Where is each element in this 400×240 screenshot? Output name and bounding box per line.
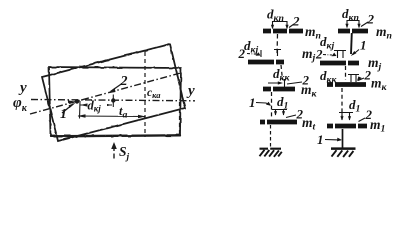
arrow d1 right A — [282, 111, 285, 115]
svg-text:mп: mп — [376, 24, 392, 42]
d_1 A ticks — [272, 109, 287, 115]
leader 2 B 1 — [359, 118, 366, 122]
mass bar m_j A — [248, 60, 284, 65]
leader to point 2 — [111, 84, 123, 92]
arrow leader2 B j — [332, 53, 337, 57]
svg-text:mj: mj — [302, 46, 316, 64]
d_kj B ticks — [334, 50, 346, 58]
leader 2 A j (dash-dot) — [247, 53, 257, 56]
svg-text:1: 1 — [360, 38, 367, 53]
t_a right arrow — [138, 115, 146, 118]
arrowhead leader 1 — [69, 103, 76, 108]
svg-text:mt: mt — [302, 115, 316, 133]
leader 1 B top — [353, 50, 359, 55]
leader 2 B top — [361, 22, 368, 27]
t_a left arrow — [78, 114, 86, 117]
svg-text:2: 2 — [367, 12, 375, 27]
column k-1 B dashed — [341, 88, 343, 122]
mass bar m_p A — [263, 29, 303, 34]
arrow d_kp right A — [285, 25, 288, 30]
svg-text:m1: m1 — [370, 117, 385, 135]
mass bar m_t A — [260, 120, 297, 125]
svg-text:mк: mк — [301, 82, 318, 100]
tick under point 1 — [79, 101, 82, 119]
leader 2 A top — [289, 24, 294, 28]
leader 2 B k — [358, 78, 364, 81]
d_1 B ticks — [339, 112, 353, 120]
arrowhead axis at point1 — [68, 100, 76, 103]
mass bar m_p B — [338, 29, 368, 34]
arrow leader1 B top — [351, 51, 357, 56]
rotated axis through point 1 (dash-dot) — [30, 73, 182, 114]
leader 1 A dash — [256, 103, 270, 106]
t_a dimension line — [78, 115, 145, 118]
svg-text:Sj: Sj — [119, 144, 130, 163]
arrow d_kp right B — [357, 24, 360, 29]
arrowhead leader 2 — [108, 88, 115, 94]
arrow d_kp left A — [271, 25, 274, 30]
arrow d_kp left B — [345, 24, 348, 29]
svg-text:y: y — [186, 83, 195, 99]
d_kj left arrow — [80, 103, 88, 106]
svg-text:d1: d1 — [277, 94, 288, 112]
label d_kj — [88, 99, 108, 114]
column t-ground A dashed — [270, 125, 272, 147]
svg-text:φк: φк — [13, 95, 28, 114]
mass bar m_k B — [327, 82, 366, 87]
main y axis (dash-dot) — [31, 100, 195, 101]
mass bar m_k A — [263, 87, 295, 92]
point 2 dot — [111, 98, 115, 102]
arrow leader1 B bottom — [337, 138, 342, 142]
leader 2 A t — [286, 115, 296, 118]
svg-text:d1: d1 — [349, 97, 360, 115]
arrow leader1 A — [266, 102, 271, 106]
svg-text:mп: mп — [305, 24, 321, 42]
rotated rectangle (plan position 2) — [42, 44, 185, 141]
svg-text:2: 2 — [292, 14, 300, 29]
d_kk B ticks — [348, 74, 359, 82]
d_kk A dimension — [268, 79, 285, 87]
S_j arrow shaft (broken) — [113, 147, 115, 159]
drop from point 2 — [112, 95, 114, 108]
svg-text:2: 2 — [238, 46, 246, 61]
bracket d_kp B — [347, 20, 359, 27]
arrow leader2 B k — [357, 76, 362, 81]
arrow leader2 j A — [256, 52, 261, 56]
S_j arrowhead — [111, 142, 117, 149]
svg-text:1: 1 — [60, 107, 67, 122]
svg-text:dкп: dкп — [267, 7, 284, 25]
arrow d_kk A — [278, 81, 283, 84]
leader to point 1 — [62, 104, 74, 113]
column p-j A dashed — [276, 34, 279, 56]
ground hatch A — [260, 149, 282, 157]
d_kj dimension line — [80, 104, 112, 106]
leader 1 B bottom dash — [325, 139, 341, 142]
svg-text:y: y — [18, 80, 27, 96]
svg-text:1: 1 — [249, 95, 256, 110]
svg-text:mк: mк — [371, 76, 388, 94]
ground hatch B — [331, 149, 356, 157]
svg-text:1: 1 — [317, 132, 324, 147]
upright rectangle (plan position 1) — [49, 67, 181, 137]
upright rectangle bottom edge (heavy) — [51, 135, 181, 136]
point 1 dot — [75, 99, 79, 103]
bracket d_kp A — [273, 21, 288, 28]
vertical dashed line at c boundary left — [144, 52, 146, 137]
arrow d1 left A — [274, 111, 277, 115]
column k-t A dashed — [271, 92, 273, 119]
svg-text:2: 2 — [315, 47, 323, 62]
svg-text:dкj: dкj — [88, 99, 102, 114]
label c_ka — [147, 86, 165, 100]
column 1-ground B — [342, 129, 344, 148]
label t_a — [118, 104, 133, 121]
mass bar m_j B — [320, 61, 359, 66]
mass bar m_1 B — [327, 124, 367, 129]
d_kj A ticks — [261, 49, 281, 57]
arrow d1 B right — [348, 116, 351, 120]
column j-k A dashed — [281, 65, 283, 80]
leader 2 A k — [287, 82, 302, 84]
arrow d1 B left — [340, 116, 343, 120]
svg-text:dкк: dкк — [320, 68, 337, 86]
column p-j B solid — [350, 33, 353, 54]
svg-text:dкj: dкj — [244, 38, 258, 56]
d_kj right arrow — [105, 103, 113, 106]
svg-text:dкп: dкп — [342, 6, 359, 24]
column j-k B dashed — [345, 66, 347, 80]
svg-text:2: 2 — [120, 74, 128, 89]
leader 2 B j dash-dot — [323, 54, 332, 57]
vertical dashed line right — [179, 102, 181, 137]
